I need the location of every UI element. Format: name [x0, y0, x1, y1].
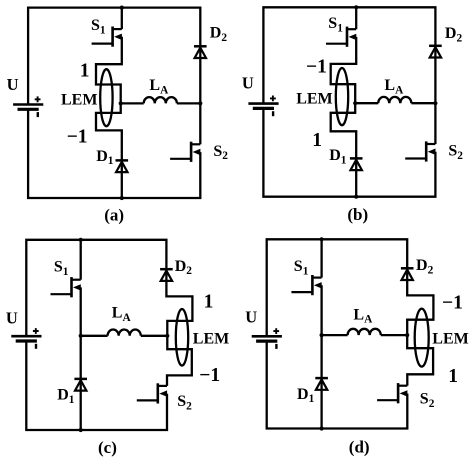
svg-text:1: 1	[80, 61, 90, 82]
svg-text:LEM: LEM	[432, 331, 468, 348]
svg-text:U: U	[6, 309, 18, 328]
svg-text:1: 1	[204, 291, 214, 312]
svg-text:−1: −1	[442, 292, 463, 313]
svg-text:LEM: LEM	[296, 91, 332, 108]
svg-text:(a): (a)	[104, 205, 124, 224]
svg-text:1: 1	[312, 130, 322, 151]
svg-text:U: U	[245, 307, 257, 326]
svg-text:U: U	[7, 75, 19, 94]
svg-text:U: U	[242, 73, 254, 92]
svg-text:−1: −1	[306, 56, 327, 77]
svg-text:LEM: LEM	[193, 330, 229, 347]
svg-text:(b): (b)	[347, 205, 368, 224]
svg-text:(c): (c)	[98, 438, 117, 457]
svg-text:1: 1	[448, 366, 458, 387]
svg-text:LEM: LEM	[61, 92, 97, 109]
svg-text:−1: −1	[67, 126, 88, 147]
svg-text:(d): (d)	[349, 438, 370, 457]
svg-text:−1: −1	[199, 365, 220, 386]
